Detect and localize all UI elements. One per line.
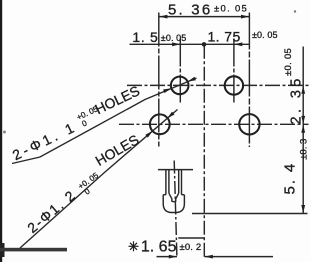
- svg-text:2-Φ1. 2: 2-Φ1. 2: [24, 186, 79, 236]
- svg-text:1. 5: 1. 5: [132, 29, 158, 45]
- svg-text:1. 65: 1. 65: [141, 238, 177, 255]
- svg-text:HOLES: HOLES: [93, 131, 142, 169]
- svg-text:±0. 05: ±0. 05: [214, 4, 248, 15]
- svg-text:0: 0: [81, 118, 89, 128]
- svg-text:±0. 3: ±0. 3: [298, 139, 309, 160]
- svg-text:5. 4: 5. 4: [281, 162, 298, 195]
- svg-text:±0. 05: ±0. 05: [161, 33, 187, 43]
- svg-text:2. 35: 2. 35: [288, 75, 304, 124]
- svg-text:±0. 05: ±0. 05: [283, 48, 294, 76]
- svg-text:±0. 2: ±0. 2: [180, 242, 202, 253]
- svg-text:5. 36: 5. 36: [168, 2, 212, 19]
- svg-text:1. 75: 1. 75: [208, 29, 241, 45]
- svg-text:+0. 05: +0. 05: [76, 171, 100, 192]
- svg-text:±0. 05: ±0. 05: [252, 30, 278, 40]
- svg-text:HOLES: HOLES: [92, 82, 142, 117]
